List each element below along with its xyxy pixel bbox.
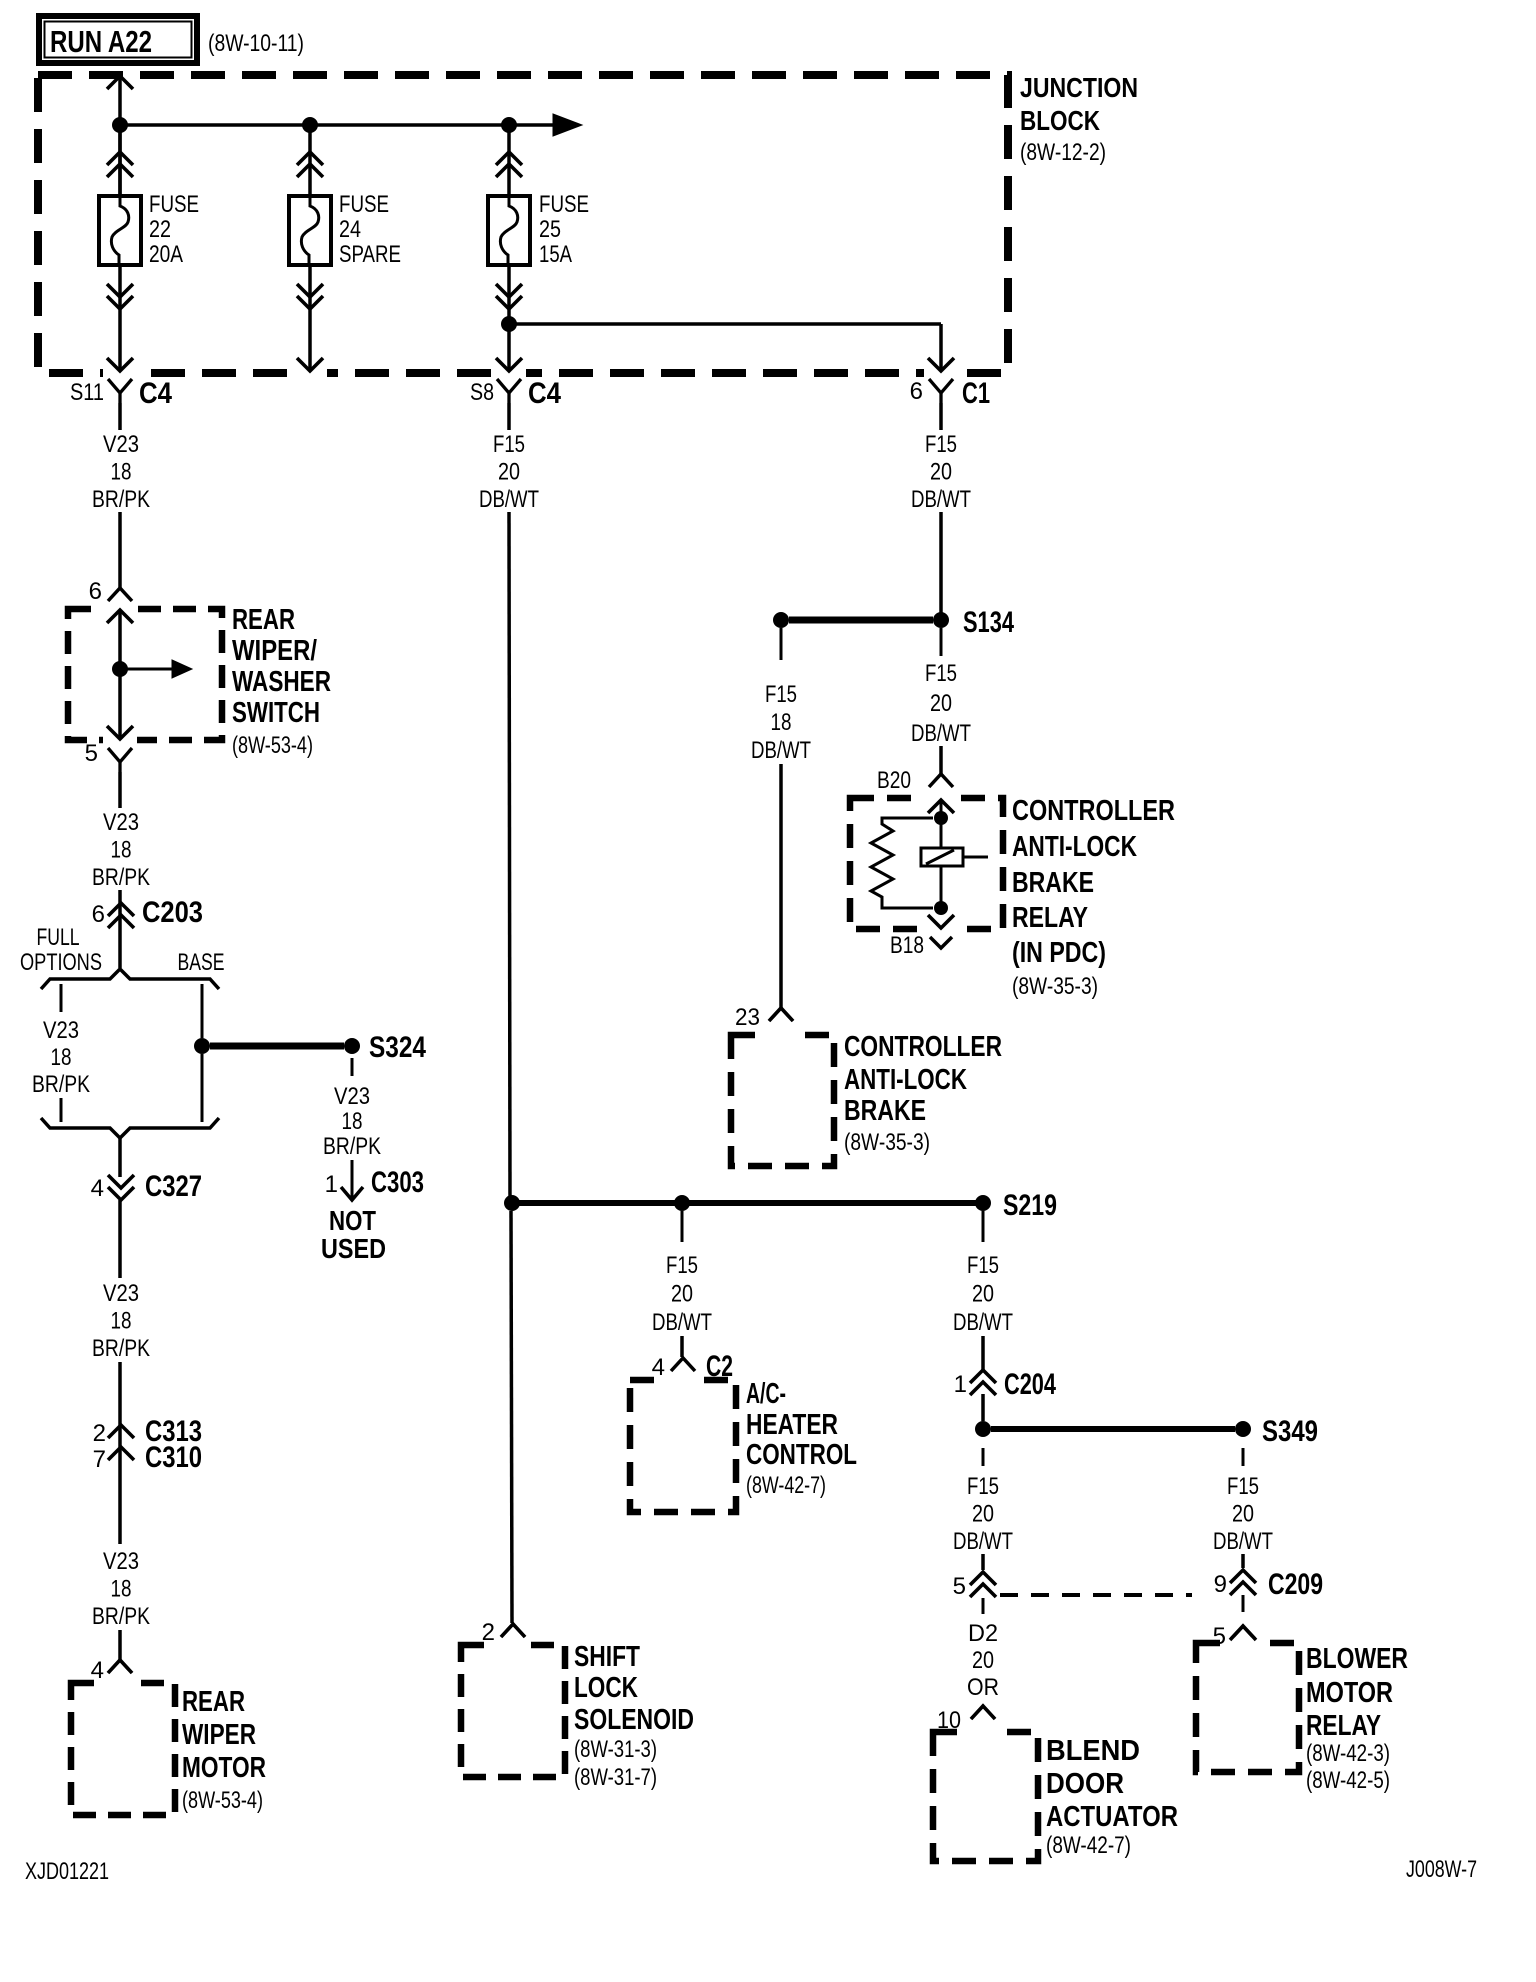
- arrow into junction block: [107, 76, 133, 89]
- node junction dot fuse24: [302, 117, 318, 133]
- svg-text:S134: S134: [963, 606, 1014, 639]
- arrow feed direction: [553, 114, 582, 136]
- wire S349 down: [1242, 1448, 1245, 1466]
- svg-text:WIPER/: WIPER/: [232, 635, 317, 667]
- wire base branch lower: [201, 1054, 204, 1122]
- connector C4 pin S8: [497, 379, 521, 393]
- svg-text:(8W-53-4): (8W-53-4): [182, 1787, 263, 1814]
- wire RUN A22 entry: [118, 75, 122, 196]
- node bus middle: [674, 1195, 690, 1211]
- svg-text:5: 5: [85, 740, 98, 767]
- node RUN A22 feed box: [39, 16, 197, 63]
- wire to C209: [1241, 1554, 1245, 1568]
- svg-text:C204: C204: [1004, 1368, 1056, 1401]
- node switch wiper contact: [112, 661, 128, 677]
- wire full-options branch: [60, 984, 63, 1012]
- svg-text:S324: S324: [369, 1031, 426, 1064]
- svg-text:C209: C209: [1268, 1568, 1323, 1601]
- svg-text:22: 22: [149, 216, 171, 243]
- svg-text:MOTOR: MOTOR: [182, 1752, 266, 1784]
- junction block dashed box: [38, 75, 1008, 373]
- svg-text:HEATER: HEATER: [746, 1409, 838, 1441]
- svg-text:SOLENOID: SOLENOID: [574, 1704, 694, 1736]
- node relay bottom junction: [934, 901, 948, 915]
- svg-text:6: 6: [92, 901, 105, 928]
- node bus left: [504, 1195, 520, 1211]
- svg-text:C1: C1: [962, 377, 990, 410]
- wire to rear wiper switch: [118, 512, 122, 588]
- svg-text:(8W-42-7): (8W-42-7): [746, 1472, 826, 1499]
- svg-text:20: 20: [930, 690, 952, 717]
- node S349: [1235, 1421, 1251, 1437]
- wire above fuse 24: [308, 125, 312, 196]
- wire S134 down: [940, 628, 943, 656]
- brace merge bottom: [41, 1118, 219, 1138]
- controller anti-lock brake relay dashed box: [850, 798, 1003, 929]
- arrow out of switch: [107, 726, 133, 739]
- svg-text:18: 18: [111, 837, 132, 864]
- wire S8 long run to S219 bus: [509, 512, 510, 1203]
- wire top feed bus: [120, 123, 553, 127]
- svg-text:DB/WT: DB/WT: [1213, 1528, 1273, 1555]
- svg-text:S11: S11: [70, 379, 104, 406]
- wire to C303: [351, 1160, 354, 1198]
- svg-text:18: 18: [51, 1044, 72, 1071]
- svg-text:RELAY: RELAY: [1306, 1710, 1381, 1742]
- svg-text:6: 6: [910, 378, 923, 405]
- svg-text:C4: C4: [528, 377, 561, 410]
- node S219: [975, 1195, 991, 1211]
- wire full-options branch lower: [60, 1098, 63, 1122]
- shift lock solenoid dashed box: [461, 1645, 565, 1777]
- svg-text:F15: F15: [1227, 1473, 1259, 1500]
- svg-text:FUSE: FUSE: [149, 191, 199, 218]
- wire to C204: [981, 1336, 985, 1370]
- svg-text:20A: 20A: [149, 241, 183, 268]
- svg-text:20: 20: [1232, 1501, 1254, 1528]
- svg-text:9: 9: [1214, 1571, 1227, 1598]
- svg-text:C327: C327: [145, 1170, 202, 1203]
- svg-text:20: 20: [972, 1281, 994, 1308]
- svg-text:15A: 15A: [539, 241, 572, 268]
- svg-text:CONTROL: CONTROL: [746, 1439, 857, 1471]
- svg-text:(8W-31-3): (8W-31-3): [574, 1736, 657, 1763]
- node junction dot fuse22: [112, 117, 128, 133]
- wire above fuse 25: [507, 125, 511, 196]
- svg-text:DB/WT: DB/WT: [911, 720, 971, 747]
- node S134 left: [773, 612, 789, 628]
- svg-text:F15: F15: [666, 1252, 698, 1279]
- svg-text:V23: V23: [103, 1548, 139, 1575]
- svg-text:18: 18: [771, 709, 792, 736]
- svg-text:20: 20: [930, 459, 952, 486]
- svg-text:DB/WT: DB/WT: [479, 486, 539, 513]
- svg-text:20: 20: [972, 1647, 994, 1674]
- svg-text:BR/PK: BR/PK: [92, 1603, 150, 1630]
- svg-text:6: 6: [89, 578, 102, 605]
- wire to C2: [680, 1336, 684, 1357]
- svg-text:18: 18: [111, 1576, 132, 1603]
- svg-text:S349: S349: [1262, 1415, 1318, 1448]
- svg-text:V23: V23: [334, 1083, 370, 1110]
- svg-text:FULL: FULL: [37, 924, 80, 951]
- wire dashed link to C209: [1000, 1593, 1192, 1597]
- svg-text:DB/WT: DB/WT: [652, 1309, 712, 1336]
- svg-text:SHIFT: SHIFT: [574, 1641, 640, 1673]
- svg-text:DB/WT: DB/WT: [953, 1528, 1013, 1555]
- svg-text:23: 23: [735, 1004, 760, 1031]
- svg-text:J008W-7: J008W-7: [1406, 1856, 1477, 1883]
- wire C327 down: [118, 1200, 122, 1278]
- svg-text:JUNCTION: JUNCTION: [1020, 72, 1138, 103]
- svg-text:20: 20: [671, 1281, 693, 1308]
- wire to ABS relay: [939, 746, 943, 774]
- wire relay bottom: [940, 866, 943, 908]
- svg-text:(8W-53-4): (8W-53-4): [232, 732, 313, 759]
- wire bus to shift lock solenoid: [511, 1211, 512, 1623]
- wire S324 down: [351, 1058, 354, 1076]
- wire splice bus S219: [512, 1200, 983, 1206]
- svg-text:A/C-: A/C-: [746, 1378, 786, 1410]
- svg-text:F15: F15: [967, 1473, 999, 1500]
- node splice below C204: [975, 1421, 991, 1437]
- wire to controller anti-lock brake: [779, 764, 783, 1008]
- connector chevrons below fuse: [107, 284, 133, 297]
- arrow fuse25 exit: [496, 358, 522, 371]
- svg-text:NOT: NOT: [329, 1205, 376, 1236]
- svg-text:D2: D2: [968, 1620, 998, 1647]
- svg-text:(8W-31-7): (8W-31-7): [574, 1764, 657, 1791]
- fuse 22 body: [99, 196, 141, 265]
- svg-text:(IN PDC): (IN PDC): [1012, 937, 1106, 969]
- svg-text:2: 2: [93, 1420, 106, 1447]
- wire relay top: [940, 800, 943, 848]
- wire S134 left branch down: [780, 628, 783, 660]
- svg-text:BRAKE: BRAKE: [844, 1095, 926, 1127]
- svg-text:DOOR: DOOR: [1046, 1768, 1124, 1800]
- svg-text:(8W-12-2): (8W-12-2): [1020, 139, 1106, 166]
- svg-text:V23: V23: [103, 809, 139, 836]
- svg-text:WASHER: WASHER: [232, 666, 331, 698]
- wire C209 to pin 5: [1242, 1595, 1245, 1612]
- fuse 25 body: [488, 196, 530, 265]
- wire splice S349: [991, 1426, 1235, 1432]
- connector C1 pin 6: [929, 379, 953, 393]
- svg-text:BR/PK: BR/PK: [92, 486, 150, 513]
- svg-text:(8W-42-3): (8W-42-3): [1306, 1740, 1390, 1767]
- svg-text:1: 1: [325, 1171, 338, 1198]
- controller anti-lock brake dashed box: [731, 1035, 834, 1166]
- svg-text:F15: F15: [967, 1252, 999, 1279]
- svg-text:XJD01221: XJD01221: [25, 1858, 109, 1885]
- svg-text:BLEND: BLEND: [1046, 1735, 1140, 1767]
- wire C1 to S134: [939, 512, 943, 620]
- svg-text:4: 4: [91, 1175, 104, 1202]
- svg-text:BR/PK: BR/PK: [92, 1335, 150, 1362]
- svg-text:F15: F15: [925, 431, 957, 458]
- svg-text:FUSE: FUSE: [339, 191, 389, 218]
- svg-text:(8W-10-11): (8W-10-11): [208, 30, 304, 57]
- node S324: [344, 1038, 360, 1054]
- wire splice S324: [210, 1043, 344, 1050]
- svg-text:REAR: REAR: [232, 604, 295, 636]
- svg-text:BRAKE: BRAKE: [1012, 867, 1094, 899]
- node junction dot fuse25: [501, 117, 517, 133]
- node S134 splice: [933, 612, 949, 628]
- svg-text:24: 24: [339, 216, 361, 243]
- svg-text:BR/PK: BR/PK: [92, 864, 150, 891]
- svg-text:(8W-42-7): (8W-42-7): [1046, 1832, 1131, 1859]
- connector chevrons above fuse: [297, 152, 323, 165]
- svg-text:WIPER: WIPER: [182, 1719, 256, 1751]
- connector chevrons below fuse: [496, 284, 522, 297]
- svg-text:ACTUATOR: ACTUATOR: [1046, 1801, 1178, 1833]
- relay coil U1: [921, 848, 963, 866]
- connector chevrons above fuse: [496, 152, 522, 165]
- wire C1 down: [939, 403, 943, 430]
- resistor relay coil suppression: [871, 818, 933, 908]
- svg-text:25: 25: [539, 216, 561, 243]
- arrow fuse24 exit: [297, 358, 323, 371]
- blend door actuator dashed box: [933, 1732, 1038, 1861]
- svg-text:F15: F15: [493, 431, 525, 458]
- fuse 24 body: [289, 196, 331, 265]
- wire switch to C203: [118, 772, 122, 808]
- svg-text:BLOCK: BLOCK: [1020, 105, 1100, 136]
- node S324 splice on base branch: [194, 1038, 210, 1054]
- wire fuse25 down: [507, 265, 511, 324]
- svg-text:REAR: REAR: [182, 1686, 245, 1718]
- svg-text:(8W-35-3): (8W-35-3): [1012, 973, 1098, 1000]
- svg-text:DB/WT: DB/WT: [751, 737, 811, 764]
- svg-text:20: 20: [972, 1501, 994, 1528]
- svg-text:(8W-42-5): (8W-42-5): [1306, 1767, 1390, 1794]
- svg-text:BR/PK: BR/PK: [323, 1133, 381, 1160]
- wire fuse24 to block edge: [308, 265, 312, 370]
- svg-text:F15: F15: [925, 660, 957, 687]
- svg-text:SPARE: SPARE: [339, 241, 401, 268]
- wire splice S134: [789, 617, 933, 624]
- svg-text:ANTI-LOCK: ANTI-LOCK: [844, 1064, 967, 1096]
- arrow into switch: [107, 610, 133, 623]
- svg-text:DB/WT: DB/WT: [911, 486, 971, 513]
- wire C4 S8 down: [507, 403, 511, 430]
- svg-text:ANTI-LOCK: ANTI-LOCK: [1012, 831, 1137, 863]
- node relay top junction: [934, 811, 948, 825]
- arrow C303 not used: [341, 1187, 363, 1200]
- wire base branch: [201, 984, 204, 1038]
- a/c-heater control dashed box: [630, 1380, 736, 1512]
- wire to C204 pin5: [981, 1554, 985, 1570]
- svg-text:20: 20: [498, 459, 520, 486]
- wire above fuse 22: [118, 125, 122, 196]
- svg-text:18: 18: [342, 1108, 363, 1135]
- connector pin B18: [930, 937, 952, 948]
- wire to rear wiper motor: [118, 1630, 122, 1660]
- svg-text:C303: C303: [371, 1166, 424, 1199]
- svg-text:BR/PK: BR/PK: [32, 1071, 90, 1098]
- svg-text:USED: USED: [321, 1233, 386, 1264]
- arrow into relay: [928, 800, 954, 813]
- svg-text:B18: B18: [890, 932, 924, 959]
- svg-text:SWITCH: SWITCH: [232, 697, 320, 729]
- connector chevrons below fuse: [297, 284, 323, 297]
- node junction below fuse25: [501, 316, 517, 332]
- svg-text:1: 1: [954, 1371, 967, 1398]
- rear wiper motor dashed box: [71, 1683, 175, 1815]
- wire C4 S11 down: [118, 403, 122, 430]
- svg-text:MOTOR: MOTOR: [1306, 1677, 1393, 1709]
- svg-text:C203: C203: [142, 896, 203, 929]
- svg-text:BLOWER: BLOWER: [1306, 1643, 1408, 1675]
- svg-text:V23: V23: [103, 1280, 139, 1307]
- svg-text:OR: OR: [967, 1674, 999, 1701]
- wire fuse22 to C4: [118, 265, 122, 370]
- brace split top: [41, 969, 219, 989]
- svg-text:F15: F15: [765, 681, 797, 708]
- svg-text:RUN A22: RUN A22: [50, 24, 152, 59]
- arrow out of relay: [928, 915, 954, 928]
- blower motor relay dashed box: [1196, 1643, 1299, 1772]
- wire bus to A/C heater: [681, 1211, 684, 1242]
- svg-text:DB/WT: DB/WT: [953, 1309, 1013, 1336]
- svg-text:V23: V23: [103, 431, 139, 458]
- svg-text:S8: S8: [470, 379, 494, 406]
- wire C204 to splice: [981, 1394, 985, 1421]
- svg-text:CONTROLLER: CONTROLLER: [1012, 795, 1175, 827]
- wire merged branch down: [118, 1138, 122, 1177]
- wire inside switch: [118, 610, 122, 738]
- connector chevrons above fuse: [107, 152, 133, 165]
- svg-text:C4: C4: [139, 377, 172, 410]
- wire to C203: [118, 890, 122, 968]
- svg-text:C310: C310: [145, 1441, 202, 1474]
- svg-text:RELAY: RELAY: [1012, 902, 1088, 934]
- svg-text:7: 7: [93, 1446, 106, 1473]
- svg-text:LOCK: LOCK: [574, 1672, 638, 1704]
- svg-text:5: 5: [953, 1573, 966, 1600]
- svg-text:S219: S219: [1003, 1189, 1057, 1222]
- svg-text:18: 18: [111, 1308, 132, 1335]
- svg-text:FUSE: FUSE: [539, 191, 589, 218]
- wire fuse25 to C4: [507, 324, 511, 370]
- wire stub below pin5: [982, 1598, 985, 1614]
- svg-text:CONTROLLER: CONTROLLER: [844, 1031, 1002, 1063]
- svg-text:BASE: BASE: [178, 949, 225, 976]
- wire S219 down: [982, 1211, 985, 1242]
- svg-text:(8W-35-3): (8W-35-3): [844, 1129, 930, 1156]
- connector C4 pin S11: [108, 379, 132, 393]
- rear wiper/washer switch dashed box: [68, 609, 222, 740]
- svg-text:B20: B20: [877, 767, 911, 794]
- svg-text:18: 18: [111, 459, 132, 486]
- wire fuse25 branch to C1: [509, 322, 941, 326]
- svg-text:V23: V23: [43, 1017, 79, 1044]
- arrow branch exit at C1: [928, 358, 954, 371]
- svg-text:OPTIONS: OPTIONS: [20, 949, 102, 976]
- arrow switch output: [120, 668, 172, 671]
- wire to C313/C310: [118, 1362, 122, 1544]
- arrow fuse22 exit: [107, 358, 133, 371]
- wire below splice: [982, 1448, 985, 1466]
